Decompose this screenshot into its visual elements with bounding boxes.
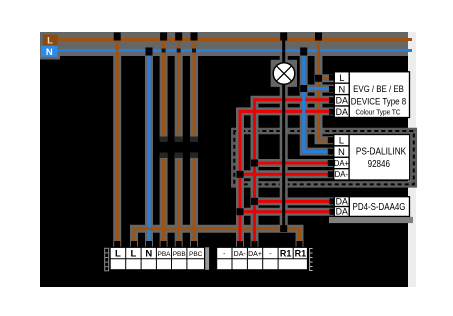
svg-text:L: L bbox=[339, 73, 344, 83]
svg-text:N: N bbox=[145, 249, 152, 260]
terminal block left gray strip bbox=[205, 247, 210, 269]
source label N bbox=[41, 46, 58, 58]
svg-text:R1: R1 bbox=[280, 248, 292, 258]
svg-text:DA-: DA- bbox=[234, 251, 247, 258]
wire halos bbox=[117, 40, 332, 246]
svg-text:L: L bbox=[115, 249, 121, 260]
svg-text:L: L bbox=[339, 136, 344, 147]
halo red PD4 DA2 bbox=[240, 208, 332, 216]
node PBB tap bbox=[175, 33, 182, 41]
svg-text:DA-: DA- bbox=[335, 170, 349, 179]
bus L wire bbox=[58, 38, 413, 41]
wire brown device drop bbox=[319, 40, 330, 141]
device U1 terminal labels bbox=[336, 73, 348, 117]
node lamp to switched bbox=[280, 225, 287, 232]
halo wire PBA vertical bbox=[160, 40, 168, 136]
wire lamp black bbox=[282, 40, 285, 229]
source label L bbox=[43, 35, 58, 47]
push button break PBB bbox=[175, 137, 183, 159]
svg-text:PBA: PBA bbox=[157, 251, 171, 258]
svg-text:R1: R1 bbox=[295, 248, 307, 258]
svg-text:EVG / BE / EB: EVG / BE / EB bbox=[353, 83, 404, 94]
svg-text:92846: 92846 bbox=[368, 159, 391, 170]
halo brown device vertical bbox=[319, 40, 331, 140]
node PBA tap bbox=[160, 33, 167, 41]
wire red DA- net bbox=[240, 111, 331, 246]
rail end bracket left bbox=[105, 248, 109, 271]
device U1 text bbox=[351, 83, 406, 116]
crossing gaps on N bus bbox=[162, 49, 196, 53]
wire PBC vertical bbox=[193, 40, 196, 247]
rail end bracket right bbox=[310, 248, 313, 271]
halo red PD4 DA1 bbox=[255, 197, 333, 205]
halo red PS DA+ bbox=[255, 159, 331, 167]
dashed enclosure halo (DALI system) bbox=[234, 131, 413, 184]
device U2 terminal labels bbox=[334, 136, 350, 180]
node blue device tap bbox=[300, 48, 307, 56]
svg-text:PBC: PBC bbox=[189, 251, 203, 258]
connector marks device1 bbox=[329, 75, 335, 115]
node blue branch bbox=[300, 85, 307, 92]
svg-text:DA+: DA+ bbox=[334, 159, 350, 168]
node red DA- PS bbox=[237, 171, 244, 178]
connector marks PS bbox=[328, 137, 334, 177]
svg-text:N: N bbox=[338, 147, 345, 158]
halo red PS DA- bbox=[240, 170, 330, 178]
terminal block right bbox=[217, 247, 308, 269]
source label halo bbox=[40, 32, 60, 60]
device U3 PD4 body bbox=[349, 197, 409, 217]
device U1 EVG terminals bbox=[334, 72, 349, 118]
svg-text:Colour Type TC: Colour Type TC bbox=[355, 107, 401, 116]
wire L1 vertical bbox=[116, 40, 119, 247]
device U2 PS-DALILINK body bbox=[349, 135, 410, 181]
svg-text:PBB: PBB bbox=[173, 251, 186, 258]
svg-text:DEVICE Type 8: DEVICE Type 8 bbox=[351, 96, 406, 107]
halo wire L1 vertical bbox=[113, 40, 121, 246]
svg-text:DA: DA bbox=[336, 207, 348, 217]
wire red DA+ net bbox=[255, 100, 332, 246]
svg-text:DA: DA bbox=[336, 197, 348, 207]
halo blue device vertical bbox=[304, 51, 330, 152]
svg-text:DA: DA bbox=[336, 107, 348, 117]
wire blue device drop bbox=[304, 51, 329, 152]
node lamp tap bbox=[280, 33, 287, 41]
wire PBA vertical bbox=[162, 40, 165, 247]
node brown branch bbox=[315, 75, 322, 82]
halo switched line bbox=[134, 229, 300, 246]
wire switched live bbox=[134, 229, 300, 246]
svg-text:N: N bbox=[338, 84, 345, 94]
svg-text:N: N bbox=[46, 47, 53, 58]
device U3 terminal labels bbox=[336, 197, 348, 217]
push button break PBC bbox=[190, 137, 198, 159]
halo red DA+ vertical bbox=[255, 100, 333, 246]
halo red DA- vertical bbox=[240, 111, 332, 246]
device U2 text bbox=[356, 147, 407, 171]
node brown device tap bbox=[315, 33, 322, 41]
lamp halo square bbox=[271, 60, 297, 87]
light strip right of panel bbox=[408, 32, 416, 287]
wire N vertical bbox=[148, 51, 151, 247]
node L1 tap bbox=[114, 33, 121, 41]
device U3 PD4 terminals bbox=[334, 197, 349, 217]
svg-text:PS-DALILINK: PS-DALILINK bbox=[356, 147, 407, 158]
svg-text:DA: DA bbox=[336, 96, 348, 106]
svg-text:L: L bbox=[130, 249, 136, 260]
connector marks PD4 bbox=[330, 198, 336, 214]
node N tap bbox=[146, 48, 153, 56]
bus halo band bbox=[40, 32, 408, 56]
svg-text:PD4-S-DAA4G: PD4-S-DAA4G bbox=[353, 202, 406, 213]
connector marks bottom blocks bbox=[114, 241, 302, 247]
dashed enclosure border bbox=[234, 131, 413, 184]
halo wire N vertical bbox=[145, 51, 153, 246]
device U2 PS-DALILINK terminals bbox=[334, 135, 349, 181]
node red DA+ PS bbox=[251, 160, 258, 167]
svg-text:DA+: DA+ bbox=[248, 251, 262, 258]
halo wire PBC vertical bbox=[190, 40, 198, 136]
bus N wire bbox=[58, 49, 413, 52]
node red DA- PD4 bbox=[237, 208, 244, 215]
node PBC tap bbox=[191, 33, 198, 41]
terminal block left bbox=[110, 247, 205, 269]
node red DA+ PD4 bbox=[251, 198, 258, 205]
device U3 shadow bbox=[329, 217, 413, 223]
halo lamp wire bbox=[280, 40, 288, 229]
wire PBB vertical bbox=[177, 40, 180, 247]
device U1 EVG body bbox=[349, 72, 409, 118]
push button break PBA bbox=[160, 137, 168, 159]
svg-text:L: L bbox=[47, 36, 53, 47]
halo wire PBB vertical bbox=[175, 40, 183, 136]
black schematic panel bbox=[40, 32, 408, 287]
lamp bbox=[273, 63, 295, 85]
